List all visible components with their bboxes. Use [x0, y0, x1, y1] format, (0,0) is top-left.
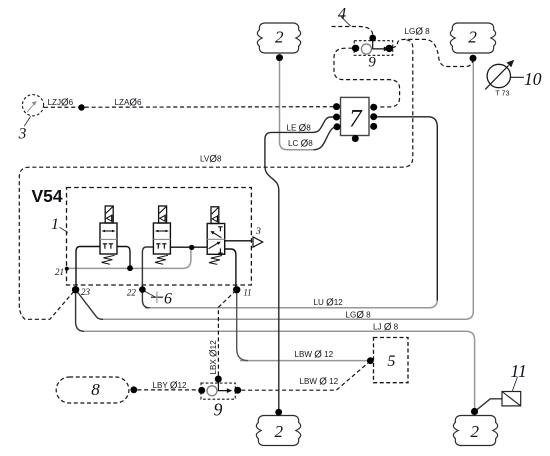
svg-text:11: 11 — [243, 288, 251, 298]
svg-text:T 73: T 73 — [495, 89, 509, 98]
svg-text:22: 22 — [127, 288, 137, 298]
svg-text:4: 4 — [338, 4, 346, 23]
svg-text:6: 6 — [164, 290, 172, 307]
svg-text:V54: V54 — [32, 186, 63, 206]
svg-text:LC Ø​8: LC Ø​8 — [288, 138, 313, 149]
svg-text:11: 11 — [511, 361, 527, 381]
svg-text:2: 2 — [468, 28, 477, 47]
svg-text:10: 10 — [524, 69, 542, 89]
svg-text:LVØ​8: LVØ​8 — [200, 154, 222, 165]
svg-text:2: 2 — [471, 422, 480, 441]
svg-text:23: 23 — [81, 287, 91, 297]
svg-text:LU Ø​12: LU Ø​12 — [314, 297, 344, 308]
svg-text:LJ Ø​ 8: LJ Ø​ 8 — [373, 322, 399, 333]
svg-text:2: 2 — [275, 422, 284, 441]
svg-text:8: 8 — [91, 380, 100, 399]
svg-text:1: 1 — [51, 216, 59, 233]
svg-text:7: 7 — [349, 106, 363, 133]
svg-text:9: 9 — [368, 55, 376, 71]
svg-text:LBY Ø​12: LBY Ø​12 — [153, 380, 188, 391]
svg-text:9: 9 — [214, 400, 223, 420]
svg-text:LGØ​ 8: LGØ​ 8 — [405, 26, 431, 37]
svg-text:LZJØ​6: LZJØ​6 — [48, 98, 74, 109]
svg-text:LBW Ø​ 12: LBW Ø​ 12 — [300, 376, 339, 387]
svg-text:LBW Ø​ 12: LBW Ø​ 12 — [295, 349, 334, 360]
svg-text:2: 2 — [275, 28, 284, 47]
svg-text:LZAØ​6: LZAØ​6 — [115, 98, 142, 109]
svg-text:LGØ​ 8: LGØ​ 8 — [346, 310, 372, 321]
svg-text:21: 21 — [55, 267, 64, 277]
svg-text:5: 5 — [387, 353, 395, 370]
svg-text:3: 3 — [18, 125, 27, 142]
svg-text:LBX Ø​12: LBX Ø​12 — [208, 340, 219, 375]
svg-text:3: 3 — [255, 227, 261, 237]
svg-text:LE Ø​8: LE Ø​8 — [287, 123, 312, 134]
